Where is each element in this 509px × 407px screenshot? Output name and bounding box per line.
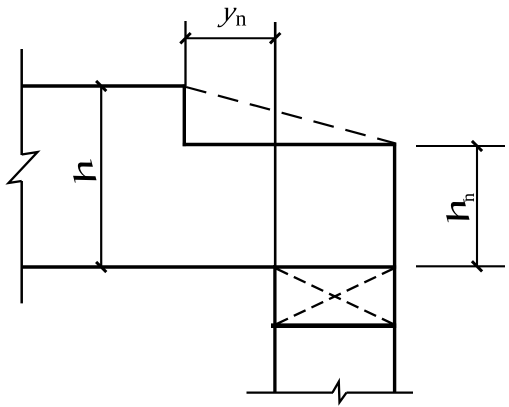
svg-text:n: n (458, 193, 478, 202)
svg-text:n: n (236, 6, 247, 31)
